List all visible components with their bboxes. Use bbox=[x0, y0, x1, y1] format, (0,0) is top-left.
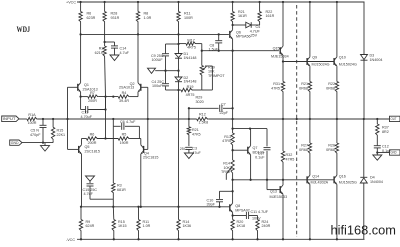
resistor R2 bbox=[103, 42, 106, 97]
transistor Q2 bbox=[138, 83, 141, 97]
wire row2 mid bbox=[98, 138, 118, 140]
wire row right bbox=[130, 96, 138, 98]
svg-text:W17: W17 bbox=[187, 38, 195, 42]
ground symbol C3 bbox=[184, 153, 193, 159]
ground symbol C14 bbox=[110, 55, 119, 61]
wire bias top H bbox=[166, 43, 179, 45]
wire VAS column bbox=[232, 51, 234, 129]
wire row2 bbox=[82, 138, 87, 140]
label R21 top bbox=[238, 10, 247, 18]
node zobel bbox=[376, 151, 378, 153]
label R31 bbox=[271, 82, 280, 90]
svg-text:931R: 931R bbox=[111, 16, 120, 20]
node C11 tee bbox=[231, 214, 233, 216]
wire row2 right bbox=[130, 138, 141, 140]
resistor R7 bbox=[88, 95, 99, 98]
resistor R9 bbox=[79, 207, 82, 240]
junction on -VCC rail bbox=[177, 238, 179, 240]
wire driver base line bbox=[283, 61, 334, 63]
resistor W17 bbox=[179, 42, 202, 45]
label R12 bbox=[199, 112, 209, 124]
svg-text:0R68: 0R68 bbox=[299, 87, 308, 91]
label R37 bbox=[382, 126, 389, 134]
svg-text:R5: R5 bbox=[122, 133, 127, 137]
resistor R4 bbox=[118, 95, 130, 98]
label R7 bbox=[88, 91, 97, 103]
svg-text:GND: GND bbox=[11, 141, 19, 145]
svg-text:8R2: 8R2 bbox=[382, 130, 389, 134]
capacitor C7 bbox=[220, 105, 233, 112]
svg-text:39-4R: 39-4R bbox=[119, 99, 129, 103]
svg-text:47R5: 47R5 bbox=[222, 139, 231, 143]
svg-text:200R: 200R bbox=[88, 141, 97, 145]
junction on -VCC rail bbox=[231, 238, 233, 240]
svg-text:25C: 25C bbox=[180, 147, 187, 151]
label Q2 bbox=[119, 82, 135, 90]
transistor Q13 bbox=[280, 185, 283, 239]
ground symbol C15 bbox=[86, 176, 95, 181]
capacitor C5 bbox=[40, 119, 47, 143]
capacitor C17 bbox=[264, 129, 271, 180]
transistor Q1 bbox=[78, 83, 81, 97]
label D3 bbox=[370, 54, 383, 62]
node bias bottom bbox=[177, 89, 179, 91]
svg-text:100R: 100R bbox=[28, 121, 37, 125]
label Q4 bbox=[143, 152, 158, 160]
node output bus bbox=[309, 118, 311, 120]
capacitor C8 bbox=[215, 34, 222, 50]
label Q6 bbox=[236, 30, 251, 38]
svg-text:Q9: Q9 bbox=[312, 56, 317, 60]
label C8 bbox=[209, 43, 219, 51]
wire R3 col bbox=[112, 126, 114, 183]
junction on +VCC rail bbox=[177, 1, 179, 3]
watermark hifi168.com bbox=[331, 223, 396, 238]
trimpot R19 bbox=[200, 66, 206, 77]
transistor Q16 bbox=[334, 154, 337, 239]
wire emitter row top bbox=[81, 96, 88, 98]
capacitor C9 bbox=[162, 44, 169, 71]
wire Q5 collector bbox=[81, 154, 83, 207]
wire pot wiper bbox=[205, 66, 212, 90]
power rail -VCC bbox=[77, 238, 365, 240]
svg-text:1.0R: 1.0R bbox=[144, 16, 152, 20]
resistor R26 bbox=[335, 119, 338, 154]
resistor R14b bbox=[177, 207, 180, 240]
svg-text:Q10: Q10 bbox=[339, 56, 346, 60]
label R27 bbox=[299, 144, 308, 152]
svg-text:1K15: 1K15 bbox=[118, 224, 127, 228]
wire bottom bus bbox=[81, 206, 230, 208]
node 22pF tee bbox=[231, 107, 233, 109]
node Q8 base cap bbox=[218, 206, 220, 208]
label Q8 bbox=[235, 204, 250, 212]
label Q10 bbox=[339, 56, 357, 67]
svg-text:624R: 624R bbox=[86, 224, 95, 228]
wire Q1 base bbox=[68, 87, 78, 119]
svg-text:0R68: 0R68 bbox=[326, 87, 335, 91]
connector OUT GND bbox=[390, 150, 400, 155]
wire pot col bbox=[201, 44, 203, 66]
diode C16 zener bbox=[246, 22, 251, 28]
label R6 bbox=[87, 12, 96, 20]
svg-text:WDJ: WDJ bbox=[17, 24, 31, 34]
ground symbol bias bbox=[148, 68, 156, 73]
label C5 bbox=[30, 129, 41, 137]
wire R6 to Q1 bbox=[80, 23, 82, 83]
svg-text:-VCC: -VCC bbox=[66, 238, 75, 242]
label C11 bbox=[251, 210, 269, 220]
capacitor C10 bbox=[216, 190, 234, 207]
svg-text:C6: C6 bbox=[120, 120, 125, 124]
junction on -VCC rail bbox=[256, 238, 258, 240]
svg-text:MJE15034: MJE15034 bbox=[271, 55, 289, 59]
node Q15 emitter bbox=[282, 60, 284, 62]
label R20 bbox=[237, 220, 246, 228]
wire zobel gnd tap bbox=[377, 152, 389, 154]
svg-text:161R: 161R bbox=[238, 14, 247, 18]
resistor R37 bbox=[376, 119, 379, 145]
node C13 join bbox=[104, 108, 106, 110]
node bottom bus dots bbox=[80, 206, 180, 208]
svg-text:4.7uF: 4.7uF bbox=[126, 120, 136, 124]
svg-text:47R5: 47R5 bbox=[271, 87, 280, 91]
svg-text:TRIM: TRIM bbox=[221, 170, 230, 174]
svg-text:2SA1013: 2SA1013 bbox=[119, 85, 134, 89]
wire center col bbox=[178, 34, 180, 50]
wire VBE bottom bbox=[233, 179, 267, 181]
wire row mid bbox=[98, 96, 118, 98]
label R11b bbox=[143, 220, 151, 228]
svg-text:1N4004: 1N4004 bbox=[370, 58, 383, 62]
junction on +VCC rail bbox=[103, 1, 105, 3]
label Q1 bbox=[83, 83, 98, 91]
wire gnd line bbox=[22, 142, 53, 144]
wire R8 to Q2 bbox=[137, 34, 139, 82]
transistor Q6 bbox=[230, 25, 233, 51]
resistor R22 top bbox=[258, 2, 261, 25]
svg-text:1.0R: 1.0R bbox=[143, 224, 151, 228]
svg-text:47K5: 47K5 bbox=[192, 133, 201, 137]
resistor R21b bbox=[187, 127, 190, 146]
label C4 bbox=[152, 80, 165, 88]
label R22 top bbox=[266, 10, 275, 18]
resistor R29 bbox=[179, 88, 202, 91]
svg-text:621R: 621R bbox=[95, 51, 104, 55]
wire bias mid H bbox=[155, 70, 178, 72]
transistor Q5 bbox=[79, 139, 82, 155]
svg-text:1.5K8: 1.5K8 bbox=[199, 120, 209, 124]
wire R28 to node bbox=[104, 34, 106, 42]
wire bias line bbox=[202, 50, 279, 52]
label R21c bbox=[299, 82, 308, 90]
node output bus bbox=[376, 118, 378, 120]
node pot top bbox=[201, 50, 203, 52]
resistor R20 bbox=[231, 220, 234, 240]
wire input node bbox=[38, 118, 68, 120]
label -VCC bbox=[66, 238, 75, 242]
svg-text:Q13: Q13 bbox=[270, 190, 277, 194]
wire lower base line bbox=[267, 179, 334, 181]
svg-text:2SC1815: 2SC1815 bbox=[143, 155, 158, 159]
wire center lower bbox=[178, 90, 180, 207]
wire Q13 base bbox=[267, 180, 280, 190]
svg-text:GND: GND bbox=[391, 151, 397, 155]
resistor R15 input bbox=[51, 119, 54, 143]
label C13 bbox=[81, 111, 93, 119]
junction on -VCC rail bbox=[282, 238, 284, 240]
label C15 bbox=[83, 188, 98, 196]
label R28 bbox=[111, 12, 120, 20]
capacitor C3 bbox=[185, 147, 192, 153]
label R13 bbox=[222, 135, 231, 143]
diode D1 bbox=[175, 50, 182, 71]
svg-text:+VCC: +VCC bbox=[66, 1, 76, 5]
svg-text:TRIMPOT: TRIMPOT bbox=[208, 74, 225, 78]
wire output bus bbox=[233, 118, 390, 120]
svg-text:2SC1815: 2SC1815 bbox=[85, 149, 100, 153]
node VBE top bbox=[231, 127, 251, 129]
label D2 bbox=[184, 76, 197, 84]
svg-text:4R75: 4R75 bbox=[187, 46, 196, 50]
svg-text:C4: C4 bbox=[256, 25, 261, 29]
resistor R11 bbox=[177, 2, 180, 34]
label R24 bbox=[262, 220, 271, 228]
svg-text:100V: 100V bbox=[252, 216, 261, 220]
node output bus bbox=[363, 118, 365, 120]
label R5 bbox=[120, 133, 129, 145]
label Q14 bbox=[311, 175, 329, 185]
ground symbol input bbox=[41, 143, 50, 152]
wire C6 branch bbox=[113, 119, 120, 126]
svg-text:4R75: 4R75 bbox=[186, 93, 195, 97]
resistor R12 bbox=[197, 117, 209, 120]
ground symbol zobel bbox=[373, 155, 382, 160]
svg-text:240R: 240R bbox=[262, 224, 271, 228]
node R21 bottom bbox=[231, 24, 233, 26]
resistor R5 bbox=[118, 137, 130, 140]
resistor R24 bbox=[256, 220, 259, 240]
wire Q1 base lower bbox=[67, 119, 69, 149]
node collector bus left bbox=[79, 33, 81, 35]
label R4 bbox=[119, 91, 129, 103]
node gnd junction bbox=[42, 141, 44, 143]
junction on +VCC rail bbox=[336, 1, 338, 3]
svg-text:R12: R12 bbox=[199, 112, 206, 116]
label Q16 bbox=[339, 175, 357, 185]
svg-text:hifi168.com: hifi168.com bbox=[331, 223, 396, 238]
label R2 bbox=[95, 47, 104, 55]
label R11 bbox=[184, 12, 193, 20]
wire Q5 base bbox=[68, 148, 79, 150]
trimpot R14 bbox=[226, 160, 234, 180]
resistor R15b bbox=[112, 207, 115, 240]
capacitor C14 bbox=[105, 42, 118, 55]
svg-text:190R: 190R bbox=[120, 141, 129, 145]
svg-text:1K36: 1K36 bbox=[183, 224, 192, 228]
label C14 bbox=[120, 47, 130, 55]
svg-text:Q15: Q15 bbox=[273, 47, 280, 51]
svg-text:161R: 161R bbox=[266, 14, 275, 18]
wire collector bus bbox=[81, 33, 229, 35]
label Q13 bbox=[270, 190, 288, 199]
transistor Q10 bbox=[334, 2, 337, 82]
svg-text:25V: 25V bbox=[251, 33, 258, 37]
capacitor C12 bbox=[374, 146, 381, 155]
capacitor C11 bbox=[233, 212, 258, 220]
label C7 bbox=[220, 102, 229, 115]
wire Q2 base bbox=[141, 87, 148, 119]
junction on -VCC rail bbox=[309, 238, 311, 240]
node Q7 base bbox=[231, 149, 233, 151]
node VAS feedback bbox=[231, 118, 233, 120]
resistor R6 bbox=[79, 2, 82, 23]
node bus x138 bbox=[137, 33, 220, 35]
node output bus bbox=[296, 118, 298, 120]
label W17 bbox=[187, 38, 196, 49]
resistor R31 bbox=[281, 62, 284, 120]
svg-text:3020: 3020 bbox=[196, 100, 204, 104]
diode D2 bbox=[175, 71, 182, 90]
label R3 bbox=[117, 184, 126, 192]
resistor R27 bbox=[308, 119, 311, 154]
capacitor C6 bbox=[122, 123, 140, 139]
svg-text:C11 4.7UF: C11 4.7UF bbox=[251, 210, 269, 214]
svg-text:C5 N: C5 N bbox=[31, 129, 40, 133]
label Q9 bbox=[312, 56, 330, 67]
dashed board separator bbox=[296, 5, 298, 237]
transistor Q8 bbox=[230, 203, 233, 219]
svg-text:OUT: OUT bbox=[391, 117, 397, 121]
label +VCC bbox=[66, 1, 76, 5]
capacitor C4 bbox=[162, 71, 179, 90]
wire Q8 collector col bbox=[232, 180, 234, 203]
resistor R1A bbox=[27, 117, 38, 120]
transistor Q7 bbox=[248, 129, 251, 180]
label R1A bbox=[28, 113, 37, 125]
wire tail lower bbox=[105, 97, 107, 139]
junction on +VCC rail bbox=[258, 1, 260, 3]
label R26 bbox=[326, 144, 335, 152]
transistor Q4 bbox=[141, 139, 144, 207]
node output bus bbox=[336, 118, 338, 120]
svg-text:C7: C7 bbox=[221, 102, 226, 106]
svg-text:4.7uF: 4.7uF bbox=[84, 192, 94, 196]
label Q15 bbox=[271, 47, 289, 59]
svg-text:4.7uF: 4.7uF bbox=[120, 51, 130, 55]
svg-text:MJ15025G: MJ15025G bbox=[339, 181, 357, 185]
resistor R21c bbox=[308, 82, 311, 120]
svg-text:4.70uF: 4.70uF bbox=[81, 115, 93, 119]
label R8b bbox=[88, 133, 97, 145]
resistor R13 bbox=[231, 129, 234, 160]
junction on +VCC rail bbox=[137, 1, 139, 3]
resistor R3 bbox=[112, 183, 115, 207]
power rail +VCC bbox=[77, 1, 365, 3]
wire feedback to VAS bbox=[208, 118, 232, 120]
resistor R22c bbox=[335, 82, 338, 120]
label C17 bbox=[255, 151, 265, 159]
junction on -VCC rail bbox=[113, 238, 115, 240]
label R29 bbox=[186, 85, 204, 104]
svg-text:0R68: 0R68 bbox=[299, 148, 308, 152]
diode D4 bbox=[360, 119, 367, 239]
svg-text:681R: 681R bbox=[117, 188, 126, 192]
label R15 input bbox=[57, 129, 66, 137]
svg-text:R6: R6 bbox=[90, 133, 95, 137]
svg-text:1N4148: 1N4148 bbox=[184, 80, 197, 84]
connector INPUT bbox=[2, 116, 19, 122]
svg-text:MJ15024G: MJ15024G bbox=[339, 63, 357, 67]
wire pot bottom bbox=[202, 76, 213, 90]
node bias mid bbox=[177, 70, 179, 72]
wire zener line bbox=[233, 24, 260, 26]
junction on +VCC rail bbox=[282, 1, 284, 3]
transistor Q9 bbox=[307, 2, 310, 82]
junction on -VCC rail bbox=[137, 238, 139, 240]
junction on -VCC rail bbox=[80, 238, 82, 240]
resistor R11b bbox=[137, 207, 140, 240]
node C7 left bbox=[188, 107, 190, 109]
transistor Q15 bbox=[280, 2, 283, 62]
wire shunt leg bbox=[188, 108, 190, 127]
wire VBE top bbox=[233, 128, 267, 130]
capacitor C15 bbox=[87, 181, 114, 199]
label R19 trimpot bbox=[208, 65, 225, 78]
svg-text:R4: R4 bbox=[122, 91, 127, 95]
connector OUT bbox=[390, 116, 400, 121]
junction on +VCC rail bbox=[231, 1, 233, 3]
label D4 bbox=[370, 176, 383, 184]
resistor R28 bbox=[103, 2, 106, 35]
wire signal line bbox=[68, 118, 197, 120]
svg-text:100uF: 100uF bbox=[152, 84, 163, 88]
node bias line dots bbox=[218, 50, 234, 52]
node VBE bottom bbox=[231, 179, 268, 181]
wire Q4 base bbox=[144, 119, 148, 149]
svg-text:Q14: Q14 bbox=[312, 175, 319, 179]
node signal dots bbox=[66, 118, 190, 120]
node tail top bbox=[104, 95, 114, 97]
svg-text:1N4148: 1N4148 bbox=[184, 56, 197, 60]
svg-text:39pF: 39pF bbox=[207, 202, 216, 206]
svg-text:MPSA92: MPSA92 bbox=[235, 209, 250, 213]
resistor R8 bbox=[136, 2, 139, 34]
junction on +VCC rail bbox=[79, 1, 81, 3]
label R8 bbox=[144, 12, 152, 20]
svg-text:100UF: 100UF bbox=[152, 58, 164, 62]
label C9 bbox=[151, 54, 164, 62]
svg-text:100R: 100R bbox=[184, 16, 193, 20]
svg-text:22pF: 22pF bbox=[220, 111, 229, 115]
svg-text:200R: 200R bbox=[88, 99, 97, 103]
label C12 bbox=[382, 145, 392, 153]
label D1 bbox=[184, 52, 197, 60]
label R14b bbox=[183, 220, 192, 228]
diode D3 bbox=[361, 2, 368, 119]
connector GND bbox=[10, 140, 22, 145]
svg-text:0R68: 0R68 bbox=[326, 148, 335, 152]
label R9 bbox=[86, 220, 95, 228]
node tail bottom bbox=[104, 137, 106, 139]
resistor R32 bbox=[281, 119, 284, 185]
svg-text:47R5: 47R5 bbox=[286, 158, 295, 162]
junction on -VCC rail bbox=[336, 238, 338, 240]
node lower base bbox=[282, 179, 284, 181]
node Q1 emitter bbox=[79, 95, 81, 97]
svg-text:0.1uF: 0.1uF bbox=[255, 156, 265, 160]
node input junction bbox=[42, 118, 54, 120]
